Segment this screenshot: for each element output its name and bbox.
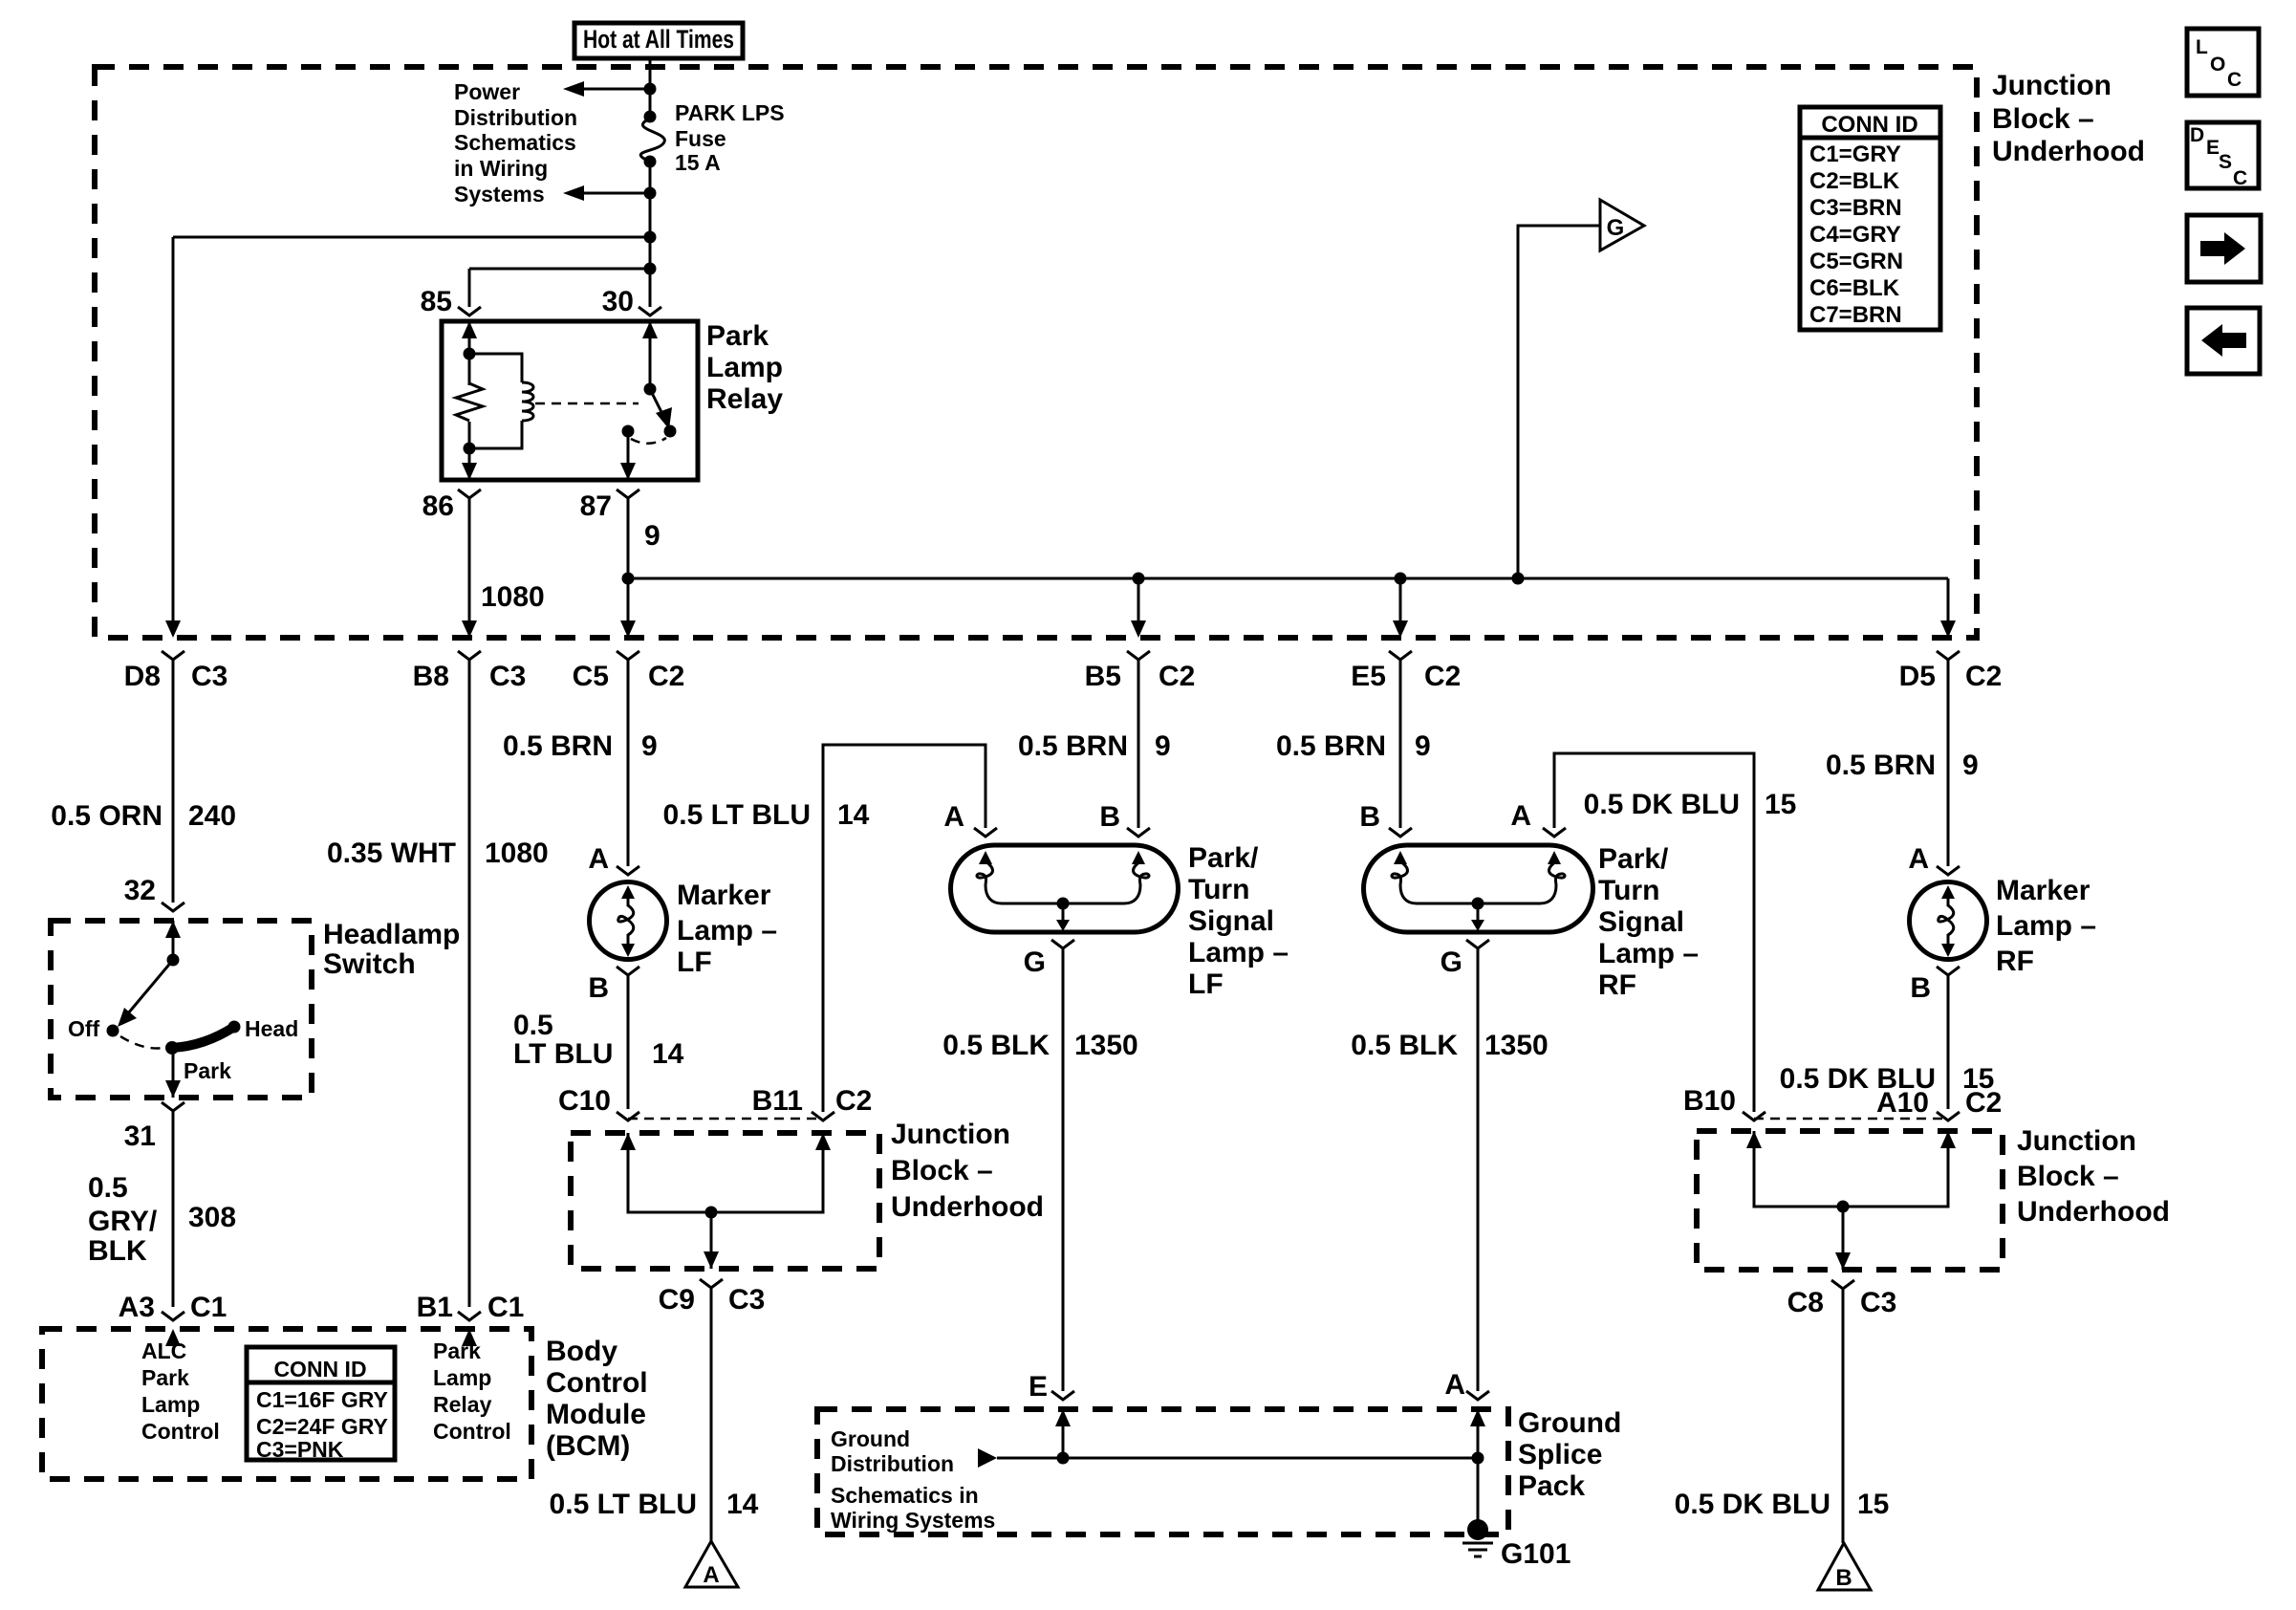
svg-text:Turn: Turn <box>1188 874 1249 905</box>
svg-text:A: A <box>1510 800 1531 832</box>
svg-text:15: 15 <box>1765 789 1796 820</box>
svg-text:Module: Module <box>546 1399 646 1430</box>
svg-text:Underhood: Underhood <box>1992 136 2145 167</box>
svg-text:B8: B8 <box>413 661 449 692</box>
svg-text:B: B <box>588 972 609 1004</box>
svg-text:Schematics: Schematics <box>454 130 576 155</box>
svg-text:(BCM): (BCM) <box>546 1430 630 1462</box>
svg-text:0.5 DK BLU: 0.5 DK BLU <box>1584 789 1740 820</box>
svg-text:0.5 BRN: 0.5 BRN <box>503 730 613 762</box>
svg-text:LF: LF <box>677 946 712 978</box>
svg-text:B10: B10 <box>1683 1085 1736 1117</box>
svg-text:C5=GRN: C5=GRN <box>1809 249 1903 274</box>
svg-text:9: 9 <box>1962 750 1979 781</box>
svg-text:Ground: Ground <box>1518 1407 1621 1439</box>
svg-text:B: B <box>1099 801 1120 833</box>
svg-text:C3: C3 <box>1860 1287 1896 1318</box>
svg-text:CONN ID: CONN ID <box>1821 112 1917 138</box>
svg-text:B11: B11 <box>752 1085 803 1117</box>
svg-text:0.5 ORN: 0.5 ORN <box>51 800 162 832</box>
svg-text:C2: C2 <box>1424 661 1461 692</box>
svg-text:A10: A10 <box>1876 1087 1929 1119</box>
svg-text:14: 14 <box>726 1489 759 1520</box>
svg-text:0.5 LT BLU: 0.5 LT BLU <box>550 1489 697 1520</box>
svg-text:1080: 1080 <box>481 581 545 613</box>
svg-text:Lamp –: Lamp – <box>1598 938 1699 969</box>
svg-text:86: 86 <box>422 490 454 522</box>
svg-text:E: E <box>2206 137 2220 159</box>
svg-text:1350: 1350 <box>1074 1030 1138 1061</box>
svg-text:C3: C3 <box>728 1284 765 1316</box>
svg-text:Junction: Junction <box>2017 1125 2136 1157</box>
svg-text:14: 14 <box>837 799 870 831</box>
svg-text:B5: B5 <box>1085 661 1121 692</box>
svg-text:Power: Power <box>454 79 520 104</box>
svg-text:C3=PNK: C3=PNK <box>256 1437 344 1462</box>
svg-text:Turn: Turn <box>1598 875 1659 906</box>
svg-text:Park: Park <box>184 1058 231 1083</box>
svg-text:C: C <box>2233 167 2247 189</box>
svg-text:Block –: Block – <box>891 1155 993 1186</box>
svg-text:C1=GRY: C1=GRY <box>1809 141 1901 167</box>
svg-text:Splice: Splice <box>1518 1439 1602 1470</box>
svg-text:S: S <box>2219 151 2232 173</box>
svg-text:1350: 1350 <box>1484 1030 1549 1061</box>
svg-text:Relay: Relay <box>706 383 783 415</box>
svg-text:B1: B1 <box>417 1292 453 1323</box>
svg-text:15 A: 15 A <box>675 150 721 175</box>
svg-text:Distribution: Distribution <box>831 1451 954 1476</box>
svg-text:ALC: ALC <box>141 1338 186 1363</box>
svg-text:Distribution: Distribution <box>454 105 577 130</box>
svg-text:Pack: Pack <box>1518 1470 1585 1502</box>
svg-text:LF: LF <box>1188 968 1224 1000</box>
svg-text:240: 240 <box>188 800 236 832</box>
svg-text:14: 14 <box>652 1038 684 1070</box>
svg-text:30: 30 <box>602 286 634 317</box>
svg-text:C1: C1 <box>190 1292 227 1323</box>
svg-text:Park: Park <box>141 1365 189 1390</box>
svg-text:C2: C2 <box>835 1085 872 1117</box>
svg-text:C1=16F GRY: C1=16F GRY <box>256 1387 388 1412</box>
svg-text:0.5: 0.5 <box>88 1172 128 1204</box>
svg-text:C4=GRY: C4=GRY <box>1809 222 1901 248</box>
svg-text:C2: C2 <box>648 661 684 692</box>
svg-text:RF: RF <box>1598 969 1636 1001</box>
svg-text:Marker: Marker <box>677 880 771 911</box>
svg-text:C5: C5 <box>573 661 609 692</box>
svg-text:C3=BRN: C3=BRN <box>1809 195 1902 221</box>
svg-text:Body: Body <box>546 1336 617 1367</box>
svg-text:G: G <box>1607 215 1625 241</box>
svg-text:C6=BLK: C6=BLK <box>1809 275 1900 301</box>
svg-text:C: C <box>2227 69 2242 91</box>
svg-text:B: B <box>1359 801 1380 833</box>
svg-text:0.5 BRN: 0.5 BRN <box>1018 730 1128 762</box>
svg-text:0.5 LT BLU: 0.5 LT BLU <box>663 799 811 831</box>
svg-text:CONN ID: CONN ID <box>273 1357 366 1382</box>
svg-text:G: G <box>1024 946 1046 978</box>
svg-text:Control: Control <box>433 1419 511 1444</box>
svg-text:in Wiring: in Wiring <box>454 156 548 181</box>
svg-text:0.5 BLK: 0.5 BLK <box>1351 1030 1458 1061</box>
svg-text:Switch: Switch <box>323 948 416 980</box>
svg-text:85: 85 <box>421 286 452 317</box>
svg-text:0.5 BRN: 0.5 BRN <box>1276 730 1386 762</box>
svg-text:A: A <box>1444 1369 1465 1401</box>
svg-text:9: 9 <box>1415 730 1431 762</box>
svg-text:0.5 BLK: 0.5 BLK <box>942 1030 1050 1061</box>
svg-text:87: 87 <box>580 490 612 522</box>
svg-text:A: A <box>588 843 609 875</box>
svg-text:Lamp –: Lamp – <box>1996 910 2096 942</box>
svg-text:LT BLU: LT BLU <box>513 1038 613 1070</box>
svg-text:308: 308 <box>188 1202 236 1233</box>
svg-text:Control: Control <box>546 1367 648 1399</box>
svg-text:C3: C3 <box>191 661 227 692</box>
svg-text:E5: E5 <box>1351 661 1386 692</box>
svg-text:Control: Control <box>141 1419 220 1444</box>
svg-text:C1: C1 <box>487 1292 524 1323</box>
svg-text:BLK: BLK <box>88 1235 147 1267</box>
svg-text:O: O <box>2210 54 2225 76</box>
svg-text:0.5: 0.5 <box>513 1010 553 1041</box>
svg-text:0.5 BRN: 0.5 BRN <box>1826 750 1936 781</box>
svg-text:C9: C9 <box>659 1284 695 1316</box>
svg-text:1080: 1080 <box>485 838 549 869</box>
svg-text:31: 31 <box>124 1120 156 1152</box>
svg-text:A: A <box>943 801 964 833</box>
svg-text:Headlamp: Headlamp <box>323 919 460 950</box>
svg-text:A: A <box>1908 843 1929 875</box>
svg-text:0.5 DK BLU: 0.5 DK BLU <box>1675 1489 1830 1520</box>
svg-text:9: 9 <box>641 730 658 762</box>
svg-text:Lamp: Lamp <box>706 352 783 383</box>
svg-text:Block –: Block – <box>1992 103 2094 135</box>
svg-text:Park: Park <box>433 1338 481 1363</box>
svg-text:Systems: Systems <box>454 182 545 207</box>
svg-text:D5: D5 <box>1899 661 1936 692</box>
svg-text:Underhood: Underhood <box>891 1191 1044 1223</box>
svg-text:Park/: Park/ <box>1188 842 1259 874</box>
svg-text:RF: RF <box>1996 946 2034 977</box>
svg-text:Schematics in: Schematics in <box>831 1483 979 1508</box>
svg-text:Lamp: Lamp <box>141 1392 200 1417</box>
svg-text:D8: D8 <box>124 661 161 692</box>
svg-text:B: B <box>1910 972 1931 1004</box>
svg-text:G101: G101 <box>1501 1538 1570 1570</box>
svg-text:PARK LPS: PARK LPS <box>675 100 785 125</box>
svg-text:E: E <box>1029 1371 1048 1403</box>
svg-text:C10: C10 <box>558 1085 611 1117</box>
svg-text:A3: A3 <box>119 1292 155 1323</box>
svg-text:Lamp –: Lamp – <box>677 915 777 946</box>
svg-text:C8: C8 <box>1787 1287 1824 1318</box>
svg-text:Signal: Signal <box>1598 906 1684 938</box>
svg-text:Off: Off <box>68 1016 100 1041</box>
svg-text:C2: C2 <box>1965 661 2002 692</box>
svg-text:15: 15 <box>1857 1489 1889 1520</box>
svg-text:Block –: Block – <box>2017 1161 2119 1192</box>
svg-text:B: B <box>1835 1565 1852 1591</box>
svg-text:Lamp –: Lamp – <box>1188 937 1289 968</box>
svg-text:L: L <box>2196 36 2208 58</box>
svg-text:Fuse: Fuse <box>675 126 726 151</box>
svg-text:Head: Head <box>245 1016 298 1041</box>
svg-text:C7=BRN: C7=BRN <box>1809 302 1902 328</box>
svg-text:Wiring Systems: Wiring Systems <box>831 1508 995 1533</box>
svg-text:Park/: Park/ <box>1598 843 1669 875</box>
svg-text:Signal: Signal <box>1188 905 1274 937</box>
svg-text:Hot at All Times: Hot at All Times <box>583 25 734 54</box>
svg-text:Junction: Junction <box>891 1119 1010 1150</box>
svg-text:Marker: Marker <box>1996 875 2090 906</box>
svg-text:C2=BLK: C2=BLK <box>1809 168 1900 194</box>
svg-text:C2: C2 <box>1159 661 1195 692</box>
svg-text:0.35 WHT: 0.35 WHT <box>327 838 456 869</box>
svg-text:Junction: Junction <box>1992 70 2112 101</box>
svg-text:C2=24F GRY: C2=24F GRY <box>256 1414 388 1439</box>
svg-text:C3: C3 <box>489 661 526 692</box>
svg-text:Underhood: Underhood <box>2017 1196 2170 1228</box>
svg-text:G: G <box>1440 946 1462 978</box>
svg-text:Ground: Ground <box>831 1426 910 1451</box>
svg-text:Park: Park <box>706 320 769 352</box>
svg-text:Lamp: Lamp <box>433 1365 491 1390</box>
svg-text:9: 9 <box>644 520 661 552</box>
svg-text:D: D <box>2190 124 2204 146</box>
svg-text:Relay: Relay <box>433 1392 492 1417</box>
svg-text:9: 9 <box>1155 730 1171 762</box>
svg-text:A: A <box>703 1562 719 1588</box>
svg-text:C2: C2 <box>1965 1087 2002 1119</box>
svg-text:GRY/: GRY/ <box>88 1206 158 1237</box>
svg-text:32: 32 <box>124 875 156 906</box>
